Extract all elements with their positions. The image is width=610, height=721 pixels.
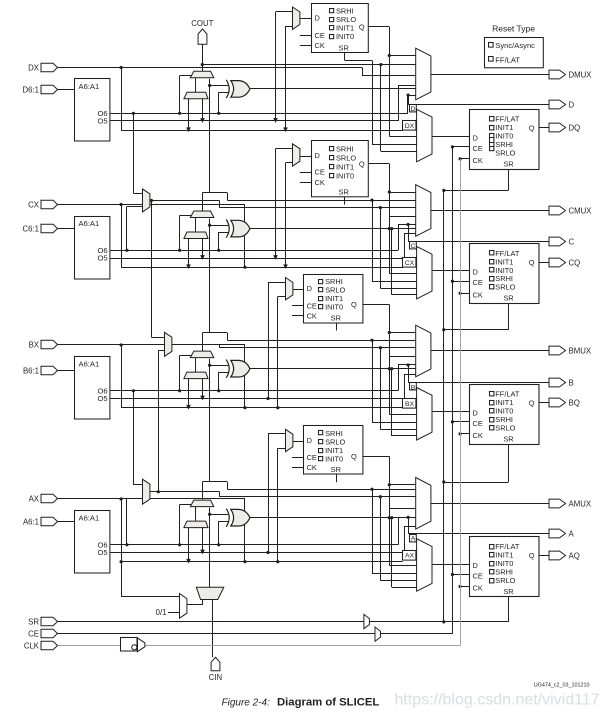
- svg-text:CK: CK: [473, 156, 483, 165]
- svg-text:A6:A1: A6:A1: [79, 514, 100, 523]
- svg-text:CIN: CIN: [209, 673, 222, 682]
- svg-text:D: D: [315, 14, 320, 23]
- svg-text:C: C: [569, 237, 575, 246]
- svg-text:Q: Q: [351, 300, 357, 309]
- svg-text:B6:1: B6:1: [23, 366, 39, 375]
- svg-text:0/1: 0/1: [156, 608, 167, 617]
- svg-text:A: A: [569, 529, 575, 538]
- svg-text:CE: CE: [315, 168, 325, 177]
- svg-text:D: D: [569, 100, 575, 109]
- svg-text:https://blog.csdn.net/vivid117: https://blog.csdn.net/vivid117: [395, 692, 600, 709]
- svg-text:D: D: [473, 268, 478, 277]
- svg-text:C: C: [411, 243, 416, 250]
- svg-text:D: D: [307, 436, 312, 445]
- svg-text:Figure 2-4:: Figure 2-4:: [222, 698, 271, 709]
- svg-text:CE: CE: [473, 144, 483, 153]
- svg-text:CK: CK: [315, 178, 325, 187]
- svg-text:B: B: [569, 378, 574, 387]
- svg-text:Q: Q: [359, 23, 365, 32]
- svg-text:B: B: [411, 384, 416, 391]
- svg-text:D: D: [473, 408, 478, 417]
- svg-text:DX: DX: [28, 63, 40, 72]
- svg-text:D: D: [307, 284, 312, 293]
- svg-text:SRLO: SRLO: [336, 153, 356, 162]
- svg-text:UG474_c2_03_101210: UG474_c2_03_101210: [534, 683, 590, 689]
- svg-text:A6:1: A6:1: [23, 517, 39, 526]
- svg-text:O5: O5: [97, 548, 107, 557]
- svg-text:AX: AX: [29, 494, 40, 503]
- svg-text:FF/LAT: FF/LAT: [495, 56, 520, 65]
- svg-text:BMUX: BMUX: [569, 346, 592, 355]
- svg-text:SR: SR: [339, 187, 349, 196]
- svg-text:D: D: [315, 151, 320, 160]
- svg-text:SR: SR: [503, 587, 513, 596]
- svg-text:AQ: AQ: [569, 551, 580, 560]
- svg-text:Q: Q: [359, 159, 365, 168]
- svg-text:DX: DX: [405, 123, 415, 130]
- svg-text:SR: SR: [503, 294, 513, 303]
- svg-text:A: A: [411, 536, 416, 543]
- svg-text:D: D: [473, 133, 478, 142]
- svg-text:SR: SR: [28, 617, 39, 626]
- svg-text:AMUX: AMUX: [569, 499, 592, 508]
- svg-text:SRLO: SRLO: [495, 423, 515, 432]
- svg-text:CE: CE: [307, 453, 317, 462]
- svg-text:SR: SR: [339, 43, 349, 52]
- svg-text:CX: CX: [405, 260, 415, 267]
- svg-text:Q: Q: [351, 452, 357, 461]
- svg-text:SR: SR: [331, 465, 341, 474]
- svg-text:INIT0: INIT0: [336, 171, 354, 180]
- svg-text:SRHI: SRHI: [336, 144, 354, 153]
- svg-text:Sync/Async: Sync/Async: [495, 41, 535, 50]
- svg-text:A6:A1: A6:A1: [79, 219, 100, 228]
- svg-text:AX: AX: [405, 552, 415, 559]
- svg-text:D: D: [473, 561, 478, 570]
- svg-text:C6:1: C6:1: [23, 224, 39, 233]
- svg-text:CK: CK: [315, 41, 325, 50]
- svg-text:A6:A1: A6:A1: [79, 82, 100, 91]
- svg-text:SRLO: SRLO: [495, 283, 515, 292]
- svg-text:Q: Q: [529, 258, 535, 267]
- svg-text:CE: CE: [28, 629, 39, 638]
- svg-text:CK: CK: [473, 431, 483, 440]
- svg-text:CE: CE: [473, 571, 483, 580]
- svg-text:DQ: DQ: [569, 123, 581, 132]
- svg-text:SR: SR: [503, 159, 513, 168]
- svg-text:Q: Q: [529, 124, 535, 133]
- svg-text:SRLO: SRLO: [495, 148, 515, 157]
- svg-text:Q: Q: [529, 551, 535, 560]
- svg-text:Diagram of SLICEL: Diagram of SLICEL: [277, 697, 379, 709]
- svg-text:CK: CK: [473, 584, 483, 593]
- svg-text:INIT0: INIT0: [325, 303, 343, 312]
- svg-text:Q: Q: [529, 399, 535, 408]
- svg-text:SR: SR: [503, 434, 513, 443]
- svg-text:INIT0: INIT0: [336, 32, 354, 41]
- svg-text:CK: CK: [473, 290, 483, 299]
- svg-text:CE: CE: [307, 301, 317, 310]
- svg-text:COUT: COUT: [191, 19, 213, 28]
- svg-text:D: D: [411, 106, 416, 113]
- svg-text:O5: O5: [97, 394, 107, 403]
- svg-text:INIT0: INIT0: [325, 454, 343, 463]
- svg-text:DMUX: DMUX: [569, 70, 593, 79]
- svg-text:SR: SR: [331, 313, 341, 322]
- svg-text:O5: O5: [97, 254, 107, 263]
- svg-text:D6:1: D6:1: [23, 85, 39, 94]
- svg-text:INIT1: INIT1: [336, 162, 354, 171]
- svg-text:CK: CK: [307, 463, 317, 472]
- svg-text:CMUX: CMUX: [569, 206, 593, 215]
- svg-text:CX: CX: [28, 200, 40, 209]
- svg-text:A6:A1: A6:A1: [79, 360, 100, 369]
- svg-text:CK: CK: [307, 311, 317, 320]
- svg-text:SRLO: SRLO: [495, 576, 515, 585]
- svg-text:BX: BX: [29, 340, 40, 349]
- svg-text:CQ: CQ: [569, 258, 581, 267]
- svg-text:CE: CE: [473, 278, 483, 287]
- svg-text:CE: CE: [473, 419, 483, 428]
- svg-text:BX: BX: [405, 401, 415, 408]
- svg-text:BQ: BQ: [569, 398, 580, 407]
- svg-text:CE: CE: [315, 31, 325, 40]
- svg-text:Reset Type: Reset Type: [492, 24, 535, 34]
- svg-text:O5: O5: [97, 117, 107, 126]
- svg-text:CLK: CLK: [24, 641, 40, 650]
